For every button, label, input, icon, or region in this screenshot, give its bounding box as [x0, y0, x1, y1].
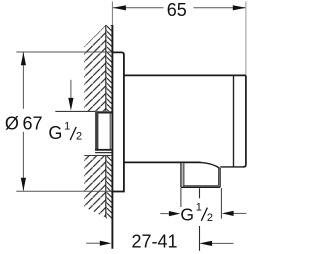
body top edge: [124, 74, 246, 76]
nipple bottom inner line: [183, 185, 219, 187]
wall hatch spine upper: [105, 25, 107, 111]
connector top bar: [95, 111, 113, 113]
dia67 bottom extension line: [16, 190, 111, 192]
dimension 65 left arrowhead: [113, 5, 126, 10]
svg-text:1: 1: [196, 202, 202, 214]
G half bottom right arrow tail: [233, 212, 246, 214]
G half bottom left arrow tail: [160, 213, 169, 215]
svg-text:2: 2: [76, 130, 82, 142]
body right extension line (to 65 dim): [245, 2, 247, 75]
dia67 dimension line upper segment: [22, 52, 24, 109]
G half top-left extension line: [55, 110, 95, 112]
svg-text:67: 67: [23, 113, 43, 133]
dimension 65 line right segment: [194, 7, 246, 9]
wall hatch upper narrow band: [106, 25, 112, 111]
wall hatch lower wide band: [84, 156, 106, 218]
G half bottom text slash: [201, 208, 207, 221]
dim 27-41 right arrowhead: [199, 241, 212, 246]
nipple bottom outer edge: [181, 186, 220, 188]
body bottom edge: [124, 161, 201, 163]
G half bottom right extension line: [220, 188, 222, 219]
dia67 top extension line: [16, 51, 111, 53]
G half top-left text slash: [70, 127, 76, 140]
G half top-left arrowhead: [68, 98, 73, 111]
wall hatch upper wide band: [84, 25, 106, 111]
connector second bottom line: [95, 152, 112, 154]
nipple axis dash upper: [199, 188, 201, 198]
dia67 bottom arrowhead: [21, 178, 26, 191]
svg-text:1: 1: [64, 121, 70, 133]
G half top-left label leader line: [70, 80, 72, 98]
svg-text:Ø: Ø: [5, 113, 19, 133]
dimension 65 right arrowhead: [233, 5, 246, 10]
G half bottom left arrowhead: [169, 211, 180, 216]
wall hatch spine lower: [105, 156, 107, 218]
wall hatch lower narrow band: [106, 156, 112, 219]
svg-text:27-41: 27-41: [131, 232, 177, 252]
wall hole bottom line: [84, 155, 112, 157]
nipple inner left line: [183, 163, 185, 186]
svg-text:G: G: [180, 204, 194, 224]
wall face line: [111, 25, 113, 249]
connector bottom edge: [95, 149, 112, 151]
svg-text:65: 65: [167, 0, 187, 20]
nipple left gray band: [182, 163, 184, 186]
body end cap seam: [233, 75, 235, 166]
svg-text:2: 2: [207, 212, 213, 224]
dim 27-41 left arrowhead: [100, 241, 112, 246]
dim 27-41 left arrow tail: [86, 242, 100, 244]
nipple right edge: [219, 168, 221, 187]
body fillet curve to nipple: [200, 162, 219, 168]
connector left edge band: [95, 111, 98, 150]
nipple left edge: [180, 163, 182, 188]
dim 27-41 right arrow tail: [212, 242, 234, 244]
svg-text:G: G: [48, 123, 62, 143]
body right face: [243, 75, 246, 166]
nipple inner right line: [218, 168, 220, 186]
body cap bottom edge: [220, 166, 243, 168]
dia67 top arrowhead: [21, 52, 26, 65]
connector inner vertical line: [109, 113, 111, 150]
G half bottom left extension line: [180, 188, 182, 207]
dia67 dimension line lower segment: [22, 132, 24, 191]
wall face extension line above (to 65 dim): [111, 2, 113, 26]
flange outline: [112, 52, 124, 191]
dimension 65 line left segment: [113, 7, 164, 9]
G half bottom right arrowhead: [222, 211, 234, 216]
nipple axis dash lower: [199, 226, 201, 251]
